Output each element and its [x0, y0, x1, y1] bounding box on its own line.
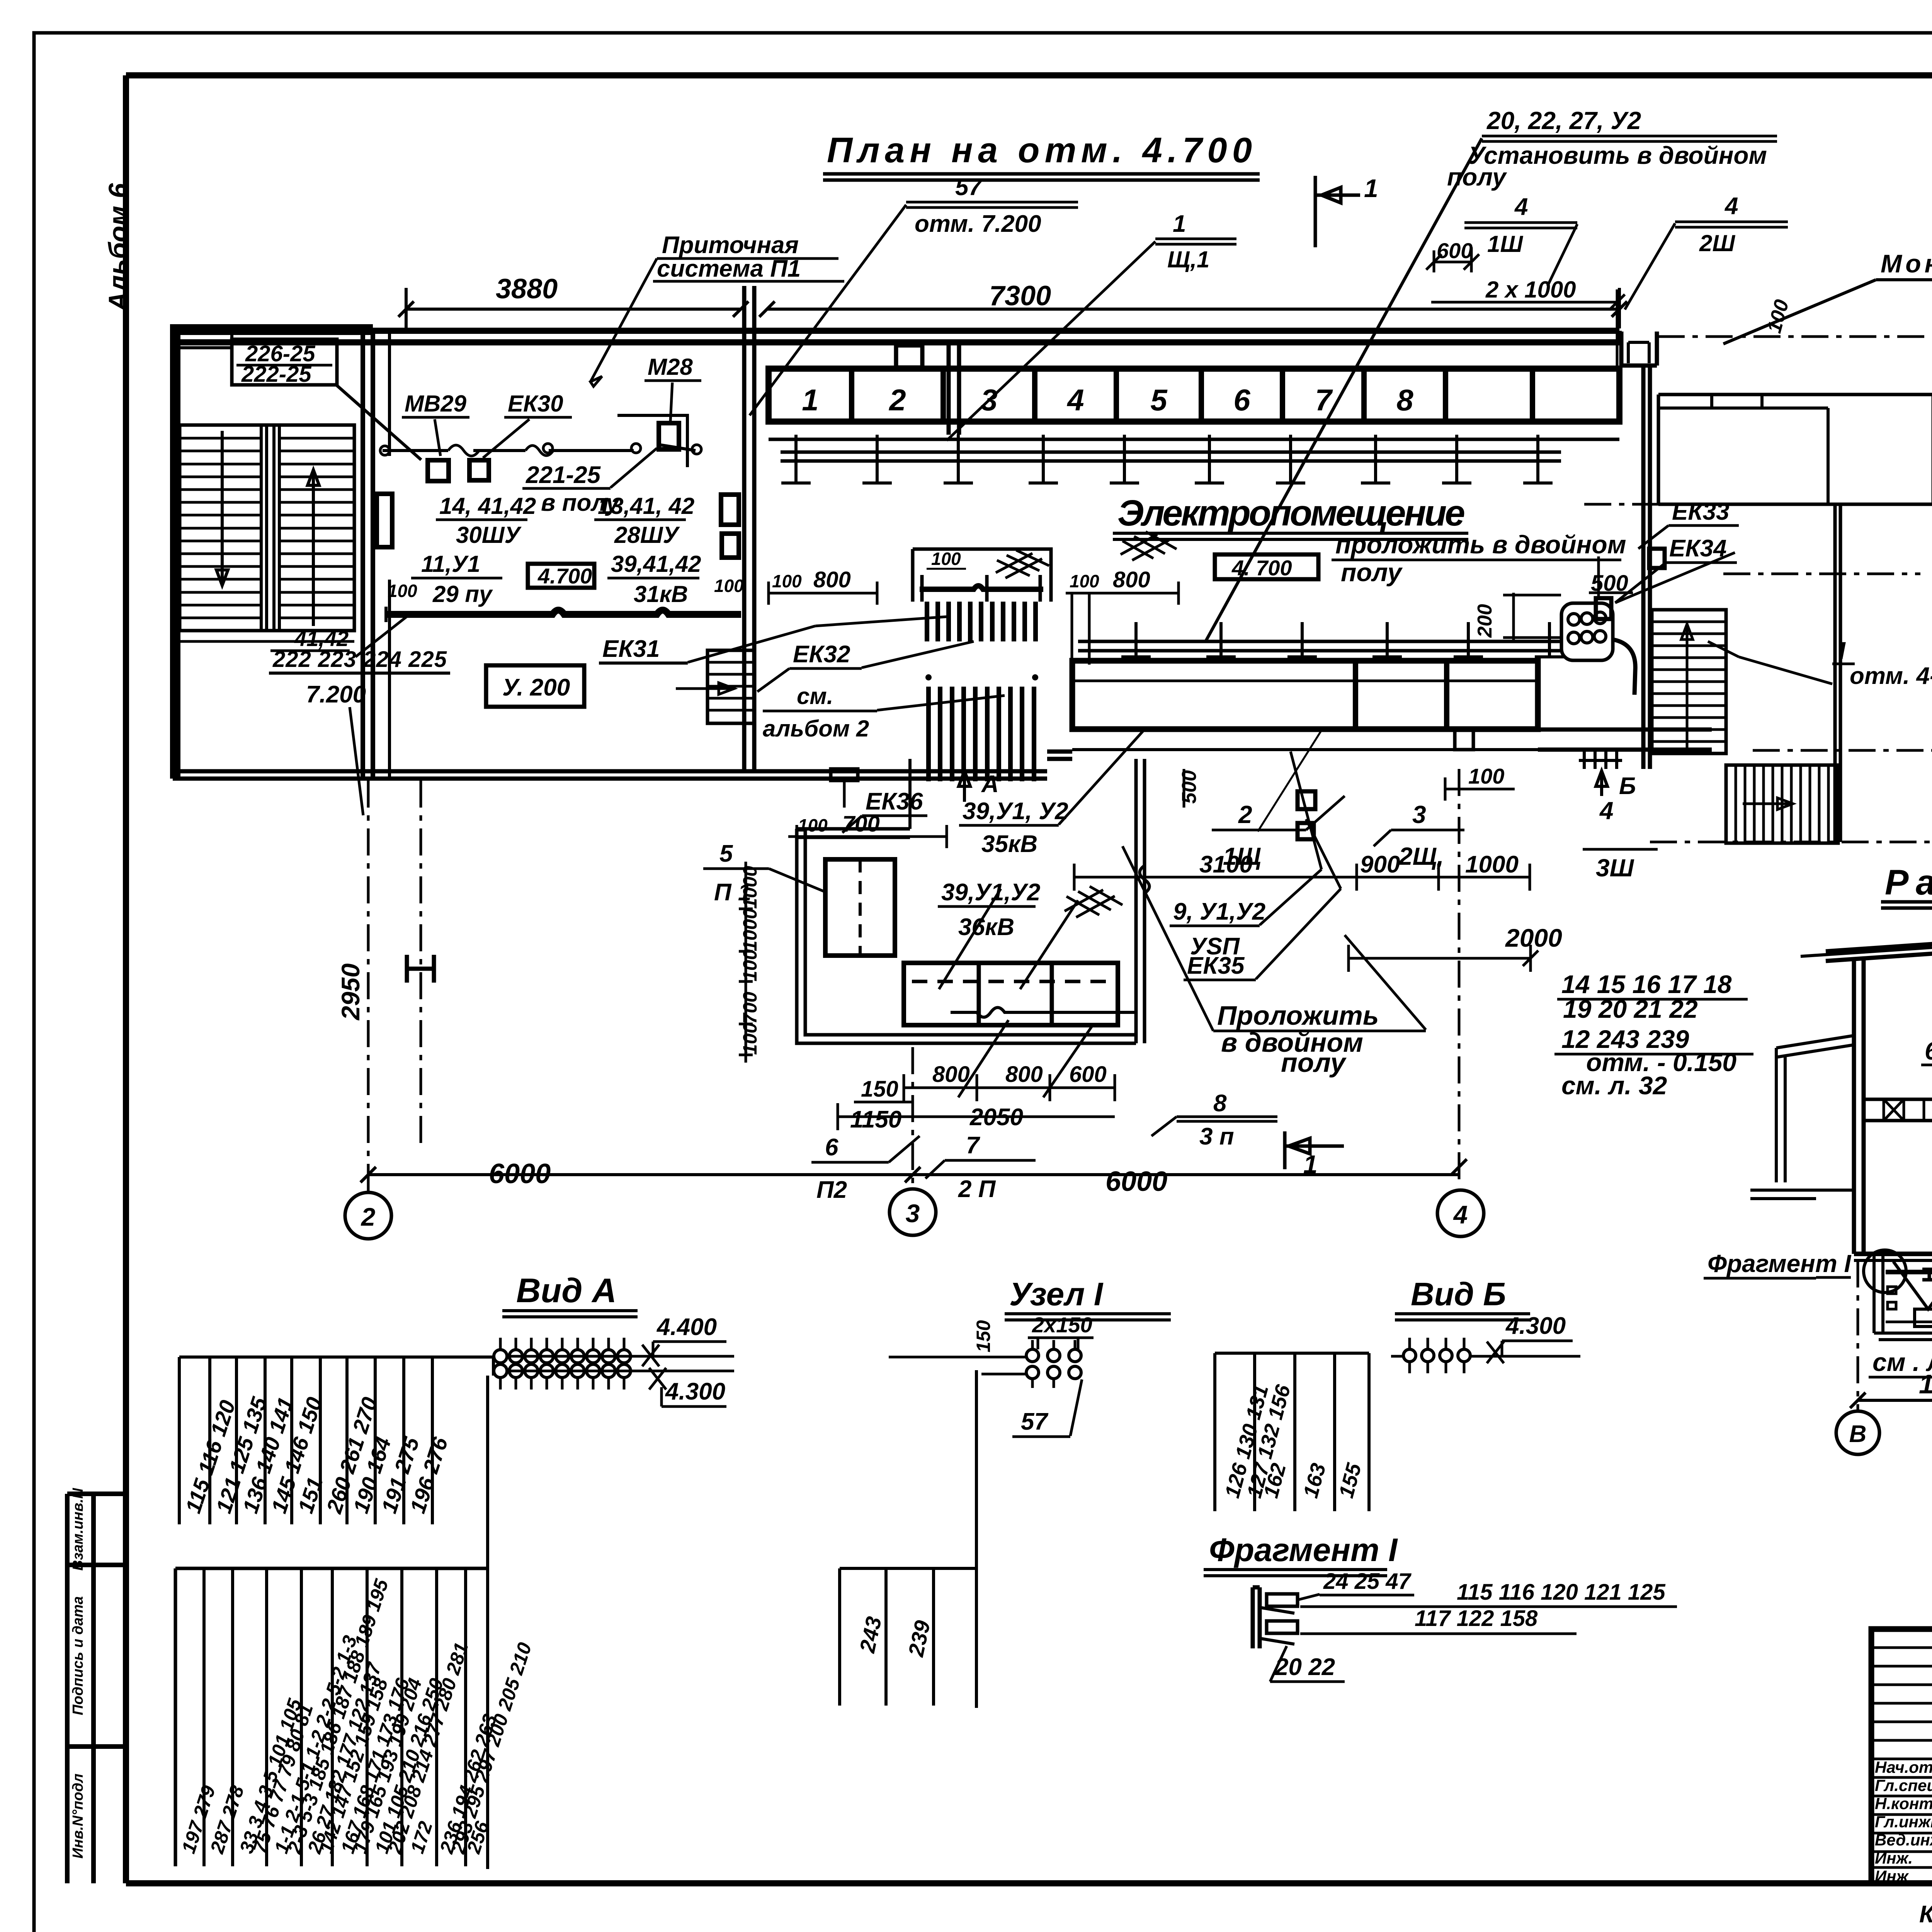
svg-text:см.: см. — [797, 683, 833, 709]
grid circle 4 — [1437, 1190, 1484, 1236]
table2 box — [175, 1568, 488, 1866]
svg-text:7300: 7300 — [989, 281, 1051, 311]
svg-text:221-25: 221-25 — [526, 462, 601, 488]
elevation box 4.700 mid — [1215, 554, 1318, 579]
uzel I circles — [1026, 1349, 1039, 1362]
svg-text:28ШУ: 28ШУ — [614, 522, 680, 548]
grid circle 2 — [345, 1192, 391, 1239]
svg-text:39,41,42: 39,41,42 — [611, 551, 701, 577]
grid line E dash-dot — [1658, 335, 1932, 338]
svg-text:У. 200: У. 200 — [502, 674, 570, 701]
elevation box 4.700 left — [528, 564, 594, 588]
right extension outline — [1658, 395, 1932, 504]
comb marks at wall — [1579, 752, 1622, 769]
svg-text:4.300: 4.300 — [665, 1378, 725, 1405]
svg-text:600: 600 — [1069, 1062, 1107, 1087]
section pit clamps — [1888, 1287, 1932, 1309]
svg-text:4: 4 — [1066, 383, 1084, 417]
leader from 226-25 box to stairs — [336, 385, 421, 460]
svg-text:5: 5 — [719, 840, 733, 867]
svg-text:альбом 2: альбом 2 — [763, 716, 869, 742]
section circle V bottom — [1836, 1411, 1879, 1454]
leaders from vent boxes — [939, 889, 1078, 989]
ek36 box — [831, 769, 858, 781]
svg-text:100: 100 — [388, 581, 417, 601]
svg-text:Монтажный проём: Монтажный проём — [1881, 249, 1932, 278]
svg-text:Электропомещение: Электропомещение — [1117, 493, 1465, 534]
wall stub between cells 2-3 — [949, 342, 959, 435]
svg-text:20 22: 20 22 — [1275, 1654, 1335, 1680]
leader montazhny to opening — [1723, 280, 1876, 344]
svg-text:6000: 6000 — [489, 1158, 551, 1189]
leader 35kv up — [1059, 730, 1144, 825]
svg-text:отм. 7.200: отм. 7.200 — [915, 211, 1041, 237]
south wall of left block — [173, 771, 1047, 779]
building top wall — [173, 331, 1619, 342]
cabinet 28ShU right — [721, 495, 739, 525]
equipment long box 2P — [904, 963, 1118, 1025]
svg-text:4.300: 4.300 — [1505, 1313, 1566, 1339]
svg-text:800: 800 — [813, 567, 851, 592]
building right corner walls — [1621, 332, 1657, 366]
cabinet 31kV right — [722, 534, 739, 558]
svg-text:План на отм. 4.700: План на отм. 4.700 — [827, 131, 1252, 170]
svg-text:Приточная: Приточная — [662, 232, 799, 259]
svg-text:ЕК31: ЕК31 — [602, 636, 660, 662]
svg-text:6: 6 — [1233, 383, 1250, 417]
table2 columns — [202, 1568, 206, 1866]
grid line G dash-dot — [1650, 841, 1932, 844]
grid circle 3 — [889, 1189, 936, 1235]
svg-text:700: 700 — [739, 992, 761, 1024]
svg-text:117 122 158: 117 122 158 — [1415, 1606, 1538, 1631]
vid B connector — [1403, 1349, 1416, 1362]
svg-text:3Ш: 3Ш — [1596, 854, 1634, 882]
cabinet EK33 — [1649, 549, 1665, 568]
small square above panel row — [896, 345, 922, 367]
building top-left upper room line — [173, 327, 373, 348]
svg-text:проложить в двойном: проложить в двойном — [1335, 530, 1626, 559]
label A arrow — [959, 771, 970, 802]
leader EK35 — [1256, 819, 1341, 979]
thick floor cable line — [386, 610, 741, 614]
svg-text:200: 200 — [1474, 604, 1496, 638]
svg-text:100: 100 — [714, 576, 744, 596]
section hoppers — [1893, 1262, 1932, 1309]
section crane beams — [1864, 1099, 1932, 1121]
svg-text:9, У1,У2: 9, У1,У2 — [1173, 898, 1265, 925]
M28 outline room — [617, 415, 687, 467]
svg-text:Вед.инж: Вед.инж — [1875, 1831, 1932, 1849]
label box 226-25 222-25 — [232, 339, 337, 385]
stair stringers — [261, 425, 279, 631]
svg-text:1000: 1000 — [739, 908, 761, 951]
svg-text:150: 150 — [861, 1077, 898, 1102]
svg-text:36кВ: 36кВ — [958, 914, 1014, 940]
right walls double vertical — [1643, 366, 1650, 769]
svg-text:Копировал Морозова: Копировал Морозова — [1919, 1901, 1932, 1928]
hash in riser box — [996, 550, 1049, 578]
second panel row 1shch-3sh — [1072, 661, 1538, 729]
U.200 elevation box — [486, 665, 584, 707]
svg-text:800: 800 — [1113, 567, 1150, 592]
svg-text:7.200: 7.200 — [306, 681, 366, 708]
grid line 2b vertical — [420, 781, 422, 1144]
south wall right segment with second panel row — [1047, 752, 1072, 759]
leader 221-25 to M28 — [611, 448, 657, 488]
svg-text:см. л. 32: см. л. 32 — [1561, 1071, 1667, 1100]
svg-text:Н.контр: Н.контр — [1875, 1794, 1932, 1813]
svg-text:Инж.: Инж. — [1875, 1849, 1913, 1867]
section left wall — [1854, 958, 1864, 1254]
svg-text:4: 4 — [1453, 1200, 1468, 1229]
right stairwell — [1652, 610, 1726, 753]
svg-text:100: 100 — [931, 549, 961, 569]
svg-text:100: 100 — [772, 571, 802, 591]
riser cable bundle — [925, 602, 929, 641]
right lower hatch block — [1726, 765, 1838, 843]
svg-text:4.700: 4.700 — [537, 564, 592, 588]
grid line 2 vertical dash-dot — [367, 781, 370, 1192]
small stair right side — [707, 650, 754, 723]
cabinet 30ShU — [377, 494, 392, 547]
leader 4-2Sh — [1625, 223, 1675, 310]
svg-text:150: 150 — [973, 1320, 994, 1352]
svg-text:ЕК33: ЕК33 — [1672, 498, 1729, 525]
svg-text:100: 100 — [1070, 571, 1099, 591]
fragment bracket — [1253, 1587, 1260, 1648]
svg-text:222 223 224 225: 222 223 224 225 — [272, 647, 447, 672]
svg-text:МВ29: МВ29 — [405, 391, 467, 417]
svg-text:7: 7 — [966, 1132, 980, 1159]
dim chain 3100 900 1000 — [1074, 864, 1530, 891]
svg-text:ЕК35: ЕК35 — [1187, 952, 1245, 979]
svg-text:Фрагмент I: Фрагмент I — [1708, 1250, 1852, 1277]
svg-text:Узел I: Узел I — [1009, 1276, 1104, 1312]
svg-text:2 х 1000: 2 х 1000 — [1485, 277, 1576, 303]
title block outline — [1871, 1629, 1932, 1883]
section mark 1 bottom — [1285, 1131, 1344, 1169]
EK30 equipment box — [469, 460, 489, 480]
svg-text:24 25 47: 24 25 47 — [1323, 1569, 1412, 1594]
svg-text:В: В — [1849, 1421, 1867, 1447]
svg-text:500: 500 — [1178, 770, 1201, 804]
svg-text:Подпись и дата: Подпись и дата — [70, 1596, 86, 1715]
svg-text:Вид Б: Вид Б — [1411, 1276, 1506, 1312]
svg-text:Инв.N°подл: Инв.N°подл — [70, 1774, 86, 1859]
svg-text:Б: Б — [1619, 773, 1636, 799]
svg-text:Альбом 6: Альбом 6 — [103, 183, 133, 312]
leader pritochnaya to plan — [590, 259, 657, 386]
grid line 3 vertical dash-dot — [912, 1047, 914, 1189]
riser dist box — [913, 549, 1051, 602]
section fragment circle — [1864, 1250, 1906, 1293]
M28 equipment box — [659, 423, 679, 449]
table1 right long vertical — [486, 1376, 489, 1869]
svg-text:1: 1 — [802, 383, 818, 417]
section hopper I beams — [1922, 1269, 1932, 1280]
svg-text:100: 100 — [739, 949, 761, 981]
svg-text:39,У1,У2: 39,У1,У2 — [941, 879, 1040, 906]
svg-text:39,У1, У2: 39,У1, У2 — [963, 798, 1068, 825]
leader 1shch — [1258, 730, 1321, 832]
svg-text:14, 41,42: 14, 41,42 — [439, 493, 536, 519]
leader 7.200 to plan — [350, 614, 410, 815]
svg-text:2050: 2050 — [969, 1104, 1023, 1131]
cable from junction box down — [1613, 639, 1635, 695]
stair arrow right flight up — [308, 470, 319, 626]
leader 57 to plan — [750, 205, 906, 415]
svg-text:2: 2 — [888, 383, 906, 417]
svg-text:11,У1: 11,У1 — [421, 551, 480, 577]
room with waves — [951, 866, 1150, 1017]
svg-text:Щ,1: Щ,1 — [1167, 247, 1209, 272]
riser box bus line — [920, 586, 1043, 589]
section bottom dim line — [1858, 1399, 1932, 1402]
table1 column lines — [178, 1357, 181, 1524]
svg-text:31кВ: 31кВ — [634, 581, 688, 607]
svg-text:полу: полу — [1281, 1048, 1347, 1078]
opening marks montazhny proyom — [1712, 395, 1762, 408]
svg-text:14 15 16 17 18: 14 15 16 17 18 — [1561, 970, 1732, 998]
table 243 239 long vertical — [975, 1370, 978, 1708]
fragment leader 2425 to clamp — [1298, 1594, 1320, 1600]
svg-text:20, 22, 27, У2: 20, 22, 27, У2 — [1486, 107, 1641, 134]
svg-text:57: 57 — [955, 174, 983, 201]
building outer wall top-left — [173, 327, 373, 779]
section pit walls — [1874, 1254, 1932, 1333]
svg-text:Разрез 1-1: Разрез 1-1 — [1885, 863, 1932, 902]
svg-text:4.400: 4.400 — [656, 1314, 717, 1340]
cable tray row 2 — [1078, 641, 1561, 651]
svg-text:10100: 10100 — [1919, 1369, 1932, 1399]
stairwell landing lines — [180, 631, 354, 641]
bottom dim line 6000+6000 — [368, 1173, 1459, 1176]
squiggle connectors — [448, 445, 553, 456]
cable tray row 1 — [781, 452, 1561, 461]
section left annex — [1776, 1036, 1854, 1182]
section grid verticals dash-dot — [1857, 1260, 1859, 1410]
section hopper feed line — [1886, 1270, 1932, 1274]
left margin graph boxes — [67, 1494, 126, 1883]
svg-text:М28: М28 — [648, 354, 693, 380]
leader 1shch1 down — [947, 241, 1155, 440]
section roof slant — [1826, 931, 1932, 1135]
svg-text:А: А — [981, 771, 999, 798]
riser room walls — [1136, 759, 1145, 1043]
hash mark on tray1 — [1121, 532, 1177, 560]
svg-text:2950: 2950 — [336, 963, 365, 1021]
stair arrow left flight down — [216, 431, 228, 585]
vid B table — [1215, 1353, 1369, 1511]
vid A lines — [507, 1356, 641, 1371]
section roof overhang line — [1801, 947, 1932, 956]
MV29 equipment box — [428, 460, 449, 481]
leader USP — [1260, 752, 1321, 925]
right stair arrow — [1681, 624, 1693, 753]
small equipment boxes right of riser room — [1298, 791, 1315, 809]
svg-text:6.000: 6.000 — [1925, 1037, 1932, 1065]
svg-text:Гл.спец: Гл.спец — [1875, 1776, 1932, 1794]
mystery dashdot lines right — [1584, 503, 1920, 506]
svg-text:57: 57 — [1021, 1408, 1048, 1435]
svg-text:Гл.инжпр: Гл.инжпр — [1875, 1813, 1932, 1831]
I-beam symbol on line 2 — [407, 955, 434, 983]
stairwell outline — [180, 425, 354, 631]
svg-text:6000: 6000 — [1105, 1166, 1167, 1197]
table1 top line — [179, 1355, 493, 1359]
svg-text:4: 4 — [1599, 797, 1614, 825]
svg-text:35кВ: 35кВ — [981, 831, 1037, 857]
door square mark — [1455, 730, 1473, 750]
svg-text:полу: полу — [1341, 558, 1403, 587]
svg-text:29 пу: 29 пу — [432, 581, 493, 607]
svg-text:115 116 120 121 125: 115 116 120 121 125 — [1457, 1580, 1665, 1605]
svg-text:П2: П2 — [816, 1177, 847, 1203]
svg-text:1Ш: 1Ш — [1487, 231, 1523, 257]
svg-text:1000: 1000 — [1465, 851, 1519, 878]
svg-text:1Щ: 1Щ — [1223, 842, 1261, 870]
dim line 1150 2050 — [838, 1103, 1115, 1130]
svg-text:3 п: 3 п — [1199, 1123, 1234, 1150]
wall segment right of second row — [1538, 730, 1712, 750]
svg-text:ЕК36: ЕК36 — [866, 788, 923, 815]
svg-text:800: 800 — [932, 1062, 970, 1087]
svg-text:1000: 1000 — [739, 866, 761, 909]
svg-text:2 П: 2 П — [958, 1176, 996, 1202]
svg-text:4: 4 — [1514, 194, 1528, 220]
svg-text:700: 700 — [842, 811, 880, 837]
leader 4-1Sh — [1548, 224, 1577, 286]
stair treads right flight — [279, 437, 354, 440]
svg-text:900: 900 — [1360, 851, 1400, 878]
svg-text:1150: 1150 — [850, 1106, 901, 1133]
svg-text:100: 100 — [739, 1022, 761, 1055]
svg-text:30ШУ: 30ШУ — [456, 522, 522, 548]
svg-text:ЕК32: ЕК32 — [793, 641, 850, 668]
vent room outline — [797, 829, 1136, 1043]
svg-text:2: 2 — [361, 1202, 376, 1231]
svg-text:Нач.отд: Нач.отд — [1875, 1758, 1932, 1776]
svg-text:8: 8 — [1213, 1090, 1227, 1117]
svg-text:Фрагмент I: Фрагмент I — [1209, 1532, 1398, 1568]
svg-text:3: 3 — [1412, 801, 1426, 828]
line under panel row — [769, 438, 1619, 441]
small stair arrow — [676, 683, 734, 694]
svg-text:100: 100 — [1468, 764, 1504, 788]
svg-text:4. 700: 4. 700 — [1231, 556, 1292, 580]
svg-text:100: 100 — [798, 815, 828, 835]
svg-text:2: 2 — [1238, 801, 1252, 828]
svg-text:Вид А: Вид А — [516, 1271, 617, 1310]
svg-text:1: 1 — [1303, 1150, 1318, 1179]
wall below second row — [1072, 729, 1538, 750]
junction box 6 holes — [1561, 603, 1613, 660]
section floor -0.150 — [1854, 1252, 1932, 1256]
second row inner line — [1072, 680, 1538, 682]
B arrow label — [1596, 771, 1607, 796]
bundle dots — [925, 674, 932, 680]
svg-text:19 20 21 22: 19 20 21 22 — [1563, 995, 1698, 1023]
equipment box P1 — [825, 859, 895, 956]
svg-text:Проложить: Проложить — [1217, 1000, 1379, 1031]
leader prolozhit lower — [1122, 846, 1426, 1031]
grid line 4 vertical dash-dot — [1458, 769, 1461, 1184]
svg-text:ЕК34: ЕК34 — [1669, 535, 1726, 562]
svg-text:ЕК30: ЕК30 — [508, 391, 563, 417]
svg-text:5: 5 — [1150, 383, 1168, 417]
svg-text:Взам.инв.N: Взам.инв.N — [70, 1488, 86, 1571]
svg-text:8: 8 — [1396, 383, 1413, 417]
svg-text:Установить в двойном: Установить в двойном — [1468, 141, 1767, 169]
svg-text:4: 4 — [1724, 193, 1738, 219]
svg-text:2Щ,: 2Щ, — [1398, 842, 1444, 870]
stair treads left flight — [180, 437, 261, 440]
svg-text:2000: 2000 — [1505, 923, 1562, 952]
uzel I horizontal line — [889, 1357, 1026, 1374]
inner wall vertical x950 — [363, 328, 373, 779]
right wall of left block x1926 — [744, 286, 754, 771]
vid A connector rows — [494, 1350, 507, 1363]
svg-text:600: 600 — [1437, 238, 1473, 263]
table 243 239 box — [840, 1568, 976, 1706]
label EK34 leader line — [1615, 553, 1735, 603]
dim line y2815 chain — [904, 1074, 1115, 1101]
hash mark 36kv — [1065, 886, 1122, 917]
svg-text:2х150: 2х150 — [1032, 1313, 1092, 1337]
svg-text:отм. 4-200: отм. 4-200 — [1850, 663, 1932, 689]
svg-text:1: 1 — [1364, 174, 1378, 202]
svg-text:13,41, 42: 13,41, 42 — [598, 493, 694, 519]
section mark 1 top — [1315, 176, 1360, 247]
svg-text:6: 6 — [825, 1134, 838, 1161]
svg-text:3: 3 — [906, 1199, 920, 1228]
leader 20-22-27 long diagonal — [1206, 138, 1482, 641]
svg-text:800: 800 — [1005, 1062, 1043, 1087]
svg-text:I: I — [1838, 637, 1846, 665]
svg-text:3880: 3880 — [496, 274, 558, 304]
cable line with circles — [383, 444, 696, 451]
wall segment x1008 — [388, 328, 391, 779]
grid line D dash-dot — [1753, 749, 1932, 752]
svg-text:1: 1 — [1173, 211, 1186, 237]
panel row cells — [769, 369, 1619, 422]
svg-text:Инж: Инж — [1875, 1867, 1909, 1885]
cabinet EK34 — [1596, 598, 1611, 619]
svg-text:2Ш: 2Ш — [1699, 230, 1735, 256]
